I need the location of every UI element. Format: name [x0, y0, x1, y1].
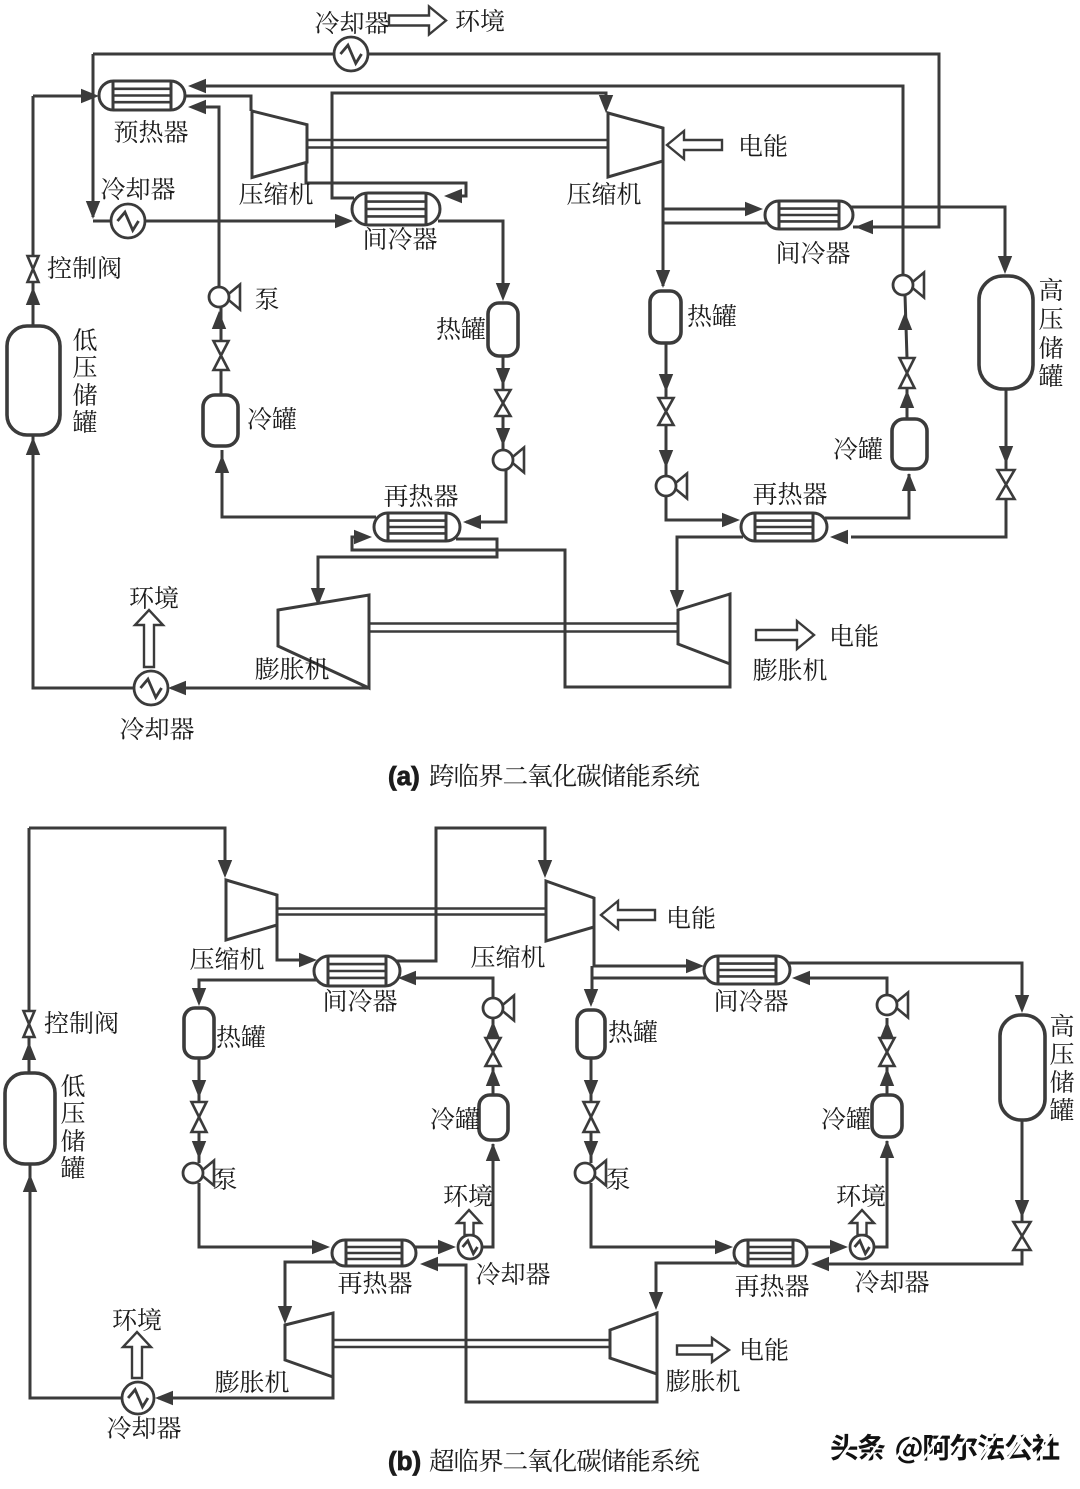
shaft expander3-expander4 [333, 1340, 610, 1347]
arrow into reheater2 right end [830, 530, 848, 544]
arrow into HP tank top [998, 256, 1012, 274]
wire intercooler4 to HP tank (b) [788, 963, 1022, 1008]
label 高压储罐 (b) [1050, 1014, 1074, 1121]
arrow into intercooler1 upper right [444, 189, 462, 203]
arrow into reheater2 left end [722, 513, 740, 527]
block arrow 电能 into compressor2 [667, 131, 722, 159]
pump 泵 3a [183, 1161, 214, 1186]
arrow up into cold tank2 [902, 473, 916, 491]
label 间冷器 3 [325, 989, 397, 1012]
arrow down into pump3a [192, 1141, 206, 1159]
arrow up below cold tank2 valve [900, 390, 914, 408]
label 间冷器 4 [716, 989, 788, 1012]
expander 2 (a) [678, 594, 730, 664]
wire LP tank return riser [33, 435, 134, 688]
wire valve to pump3a [198, 1132, 201, 1163]
heat exchanger 间冷器 1 [352, 193, 440, 225]
arrow into reheater4 right end [811, 1257, 829, 1271]
heat exchanger 间冷器 3 [314, 956, 400, 986]
cold tank 冷罐 2 [892, 419, 927, 469]
arrow into cooler3 [168, 681, 186, 695]
low pressure tank 低压储罐 (a) [7, 326, 60, 435]
arrow down hot tank2 outlet [659, 374, 673, 392]
heat exchanger 再热器 1 [374, 513, 460, 541]
pump cold side 3b [483, 996, 514, 1021]
heat exchanger 再热器 3 [332, 1240, 416, 1266]
arrow down hot tank4 outlet [584, 1080, 598, 1098]
wire preheater loop down to cooler2 [92, 54, 95, 217]
arrow up into cold tank4 bottom [880, 1140, 894, 1158]
heat exchanger 预热器 [99, 81, 185, 110]
high pressure tank 高压储罐 (a) [979, 276, 1033, 389]
cooler C3 bottom (a) [134, 671, 168, 705]
wire reheater3 to cooler3b [414, 1246, 440, 1249]
wire compressor2 outlet down [662, 161, 665, 286]
wire cold tank1 to valve [220, 370, 223, 395]
wire expander1 outlet to cooler3 [171, 687, 369, 690]
valve cold tank3 (b) [486, 1038, 501, 1066]
label 环境 bottom (b) [113, 1308, 161, 1331]
expander 1 (a) [278, 595, 369, 688]
arrow into cooler3b [438, 1240, 456, 1254]
expander 4 (b) [610, 1313, 657, 1374]
wire valve to pump4a [590, 1132, 593, 1163]
valve cold tank4 (b) [880, 1038, 895, 1066]
arrow into intercooler2 left end [745, 202, 763, 216]
cold tank 冷罐 4 [872, 1095, 902, 1137]
wire pump3b riser to intercooler3 [413, 978, 493, 998]
label 冷却器 mid-left (b) [477, 1262, 550, 1285]
control valve 控制阀 (b) [24, 1011, 35, 1037]
wire preheater outlet to compressor1 [186, 96, 251, 111]
wire HP tank2 to valve [1021, 1120, 1024, 1222]
wire reheater4 to cooler4b [806, 1246, 832, 1249]
arrow down hot tank1 outlet [496, 368, 510, 386]
wire reheater4 to expander4 [656, 1263, 737, 1304]
arrow up into control valve (b) [22, 1042, 36, 1060]
arrow up below cold4 valve [880, 1068, 894, 1086]
label 泵 (a) [256, 287, 279, 310]
hot tank 热罐 3 [184, 1008, 214, 1058]
label 间冷器 1 [365, 227, 437, 250]
arrow into hot tank3 [192, 988, 206, 1006]
wire intercooler2 to HP tank [851, 207, 1005, 270]
arrow down into expander2 [670, 590, 684, 608]
block arrow 环境 above cooler3b [457, 1210, 481, 1235]
expander 3 (b) [285, 1313, 333, 1377]
arrow down into pump1b [659, 450, 673, 468]
label 再热器 2 [753, 482, 827, 505]
label 热罐 1 [437, 317, 485, 340]
arrow down into cooler2 line [86, 201, 100, 219]
wire control valve to preheater [33, 95, 94, 98]
arrow up-right into reheater1 lower left [354, 530, 372, 544]
arrow into reheater1 right end [463, 515, 481, 529]
label 泵 3 [214, 1167, 237, 1190]
cooler C2 left [111, 204, 145, 238]
caption (a) 跨临界二氧化碳储能系统 [388, 761, 699, 791]
wire reheater1 to cold tank1 [222, 450, 376, 517]
wire cooler2 line to intercooler1 [93, 220, 349, 223]
arrow down into compressor2 [599, 95, 613, 113]
label 冷罐 1 [248, 407, 296, 430]
label 电能 expanders (a) [832, 624, 877, 647]
arrow up into pump1 [212, 311, 226, 329]
label 膨胀机 3 [216, 1370, 289, 1393]
wire compressor3 outlet to intercooler3 [277, 925, 301, 960]
valve HP tank (b) [1014, 1222, 1031, 1250]
arrow into intercooler3 right end [398, 971, 416, 985]
arrow down into expander4 [649, 1292, 663, 1310]
block arrow 环境 above cooler5 [123, 1332, 151, 1378]
wire reheater2 to expander2 [677, 537, 743, 602]
wire valve to pump1b [665, 425, 668, 476]
wire intercooler1 to hot tank1 [438, 221, 503, 296]
wire LP tank to control valve [32, 96, 35, 256]
wire HP valve2 to reheater4 [826, 1250, 1022, 1264]
control valve 控制阀 (a) [28, 256, 39, 282]
arrow up into LP tank bottom [26, 437, 40, 455]
arrow into intercooler3 left end [299, 953, 317, 967]
wire cold tank4 to valve [886, 1066, 889, 1095]
wire reheater3 to expander3 [285, 1262, 336, 1318]
pump cold side 2 [893, 273, 924, 298]
label 控制阀 (a) [48, 256, 121, 279]
wire valve to pump4b [886, 1018, 889, 1038]
label 冷却器 bottom (a) [121, 717, 194, 740]
label 电能 compressors (b) [669, 906, 714, 929]
wire valve to pump3b [492, 1018, 495, 1038]
label 再热器 1 [384, 484, 458, 507]
cooler C3b mid-left (b) [458, 1235, 482, 1259]
wire compressor4 outlet to hot tank4 [591, 966, 594, 1002]
arrow up into cold tank1 [215, 455, 229, 473]
wire valve to LP tank top [32, 282, 35, 326]
block arrow 环境 top [389, 7, 446, 35]
arrow up below cold3 valve [486, 1068, 500, 1086]
arrow into preheater left end [81, 89, 99, 103]
label 低压储罐 (a) [73, 328, 97, 433]
wire pump3a to reheater3 left end [199, 1183, 313, 1247]
arrow into reheater4 left end [715, 1240, 733, 1254]
wire valve to pump2 [905, 295, 907, 358]
valve hot tank4 (b) [584, 1102, 599, 1132]
wire intercooler1 to compressor2 [332, 93, 606, 198]
block arrow 电能 from expander4 [677, 1338, 729, 1362]
wire hot tank2 to valve [665, 343, 668, 398]
valve hot tank2 (a) [659, 398, 674, 425]
shaft expander1-expander2 [369, 624, 678, 632]
pump cold side 4b [877, 993, 908, 1018]
compressor 3 (b) [226, 880, 277, 940]
wire compressor2 outlet to intercooler2 [663, 208, 747, 211]
label 间冷器 2 [778, 241, 850, 264]
cold tank 冷罐 3 [479, 1095, 508, 1140]
low pressure tank 低压储罐 (b) [5, 1073, 55, 1164]
valve hot tank1 (a) [496, 390, 511, 416]
svg-text:(b): (b) [388, 1446, 421, 1476]
arrow up into cold tank3 bottom [486, 1143, 500, 1161]
wire intercooler2 lower left to hot tank2 drop [663, 222, 767, 225]
label 热罐 2 [688, 304, 736, 327]
label 冷却器 left [102, 177, 175, 200]
wire compressor4 outlet to intercooler4 [594, 927, 688, 966]
arrow up into LP tank2 bottom [23, 1174, 37, 1192]
label 高压储罐 (a) [1039, 278, 1063, 387]
arrow down hot tank3 outlet [192, 1080, 206, 1098]
arrow down into pump1a [496, 428, 510, 446]
wire LP tank2 return riser [30, 1164, 122, 1398]
arrow up into control valve [26, 287, 40, 305]
wire intercooler3 to compressor4 [396, 828, 545, 961]
heat exchanger 再热器 2 [741, 513, 827, 541]
heat exchanger 间冷器 4 [704, 956, 790, 984]
label 压缩机 3 [190, 947, 263, 970]
wire HP valve to reheater2 right end [851, 499, 1006, 537]
wire compressor1 outlet to intercooler1 [306, 163, 466, 196]
caption (b) 超临界二氧化碳储能系统 [388, 1446, 699, 1476]
label 再热器 4 [735, 1274, 809, 1297]
heat exchanger 再热器 4 [734, 1240, 807, 1266]
watermark 头条@阿尔法公社 [831, 1434, 1059, 1464]
block arrow 电能 from expander2 [756, 621, 814, 649]
wire expander3 outlet to cooler5 [158, 1377, 333, 1398]
wire hot tank4 to valve [590, 1055, 593, 1102]
wire hot tank1 to valve [502, 356, 505, 390]
arrow up into pump2 [898, 312, 912, 330]
arrow into reheater3 left end [312, 1240, 330, 1254]
arrow into preheater upper right [188, 79, 206, 93]
high pressure tank 高压储罐 (b) [1000, 1015, 1045, 1120]
wire valve to pump1a [502, 416, 505, 450]
wire expander4 outlet to reheater3 [436, 1265, 657, 1402]
arrow into hot tank1 [496, 283, 510, 301]
arrow into intercooler1 lower left [335, 214, 353, 228]
heat exchanger 间冷器 2 [765, 201, 853, 229]
arrow down into pump4a [584, 1141, 598, 1159]
block arrow 环境 above cooler4b [850, 1210, 874, 1235]
arrow down into compressor3 [218, 860, 232, 878]
block arrow 环境 above cooler3 [135, 610, 163, 667]
shaft compressor3-compressor4 [277, 909, 546, 915]
cold tank 冷罐 1 [203, 395, 238, 446]
arrow down into compressor4 [538, 860, 552, 878]
wire pump1b to reheater2 left end [666, 496, 722, 520]
label 环境 mid-left (b) [444, 1184, 492, 1207]
label 冷罐 4 [822, 1107, 870, 1130]
label 膨胀机 1 [256, 657, 329, 680]
label 环境 bottom (a) [130, 586, 178, 609]
wire top line to compressor3 [29, 828, 225, 872]
pump hot side 1a [493, 448, 524, 473]
pump 泵 (a) [209, 285, 240, 310]
cooler C1 top [334, 37, 368, 71]
wire left riser to control valve (b) [28, 828, 31, 1011]
arrow down HP tank outlet [999, 446, 1013, 464]
compressor 2 (a) [608, 113, 663, 177]
wire cooler4b to cold tank4 [874, 1141, 887, 1247]
arrow into hot tank2 [656, 270, 670, 288]
svg-text:(a): (a) [388, 761, 420, 791]
arrow into hot tank4 [584, 989, 598, 1007]
wire HP tank to valve [1005, 389, 1008, 470]
arrow into intercooler2 right end [855, 220, 873, 234]
label 泵 4 [607, 1167, 630, 1190]
valve HP tank (a) [998, 470, 1015, 499]
wire cooler3b to cold tank3 [481, 1144, 493, 1247]
wire valve to LP tank (b) [28, 1037, 31, 1073]
hot tank 热罐 2 [650, 291, 681, 343]
arrow into preheater lower right [188, 100, 206, 114]
valve cold tank2 (a) [900, 358, 915, 388]
valve cold tank1 (a) [214, 341, 229, 370]
wire cold tank2 to valve [906, 388, 909, 419]
hot tank 热罐 1 [488, 303, 518, 356]
label 冷却器 bottom (b) [108, 1416, 181, 1439]
label 热罐 4 [609, 1020, 657, 1043]
label 压缩机 1 [239, 182, 312, 205]
arrow up into pump4b [880, 1021, 894, 1039]
wire intercooler4 lower left to drop [592, 977, 710, 980]
label 再热器 3 [338, 1271, 412, 1294]
arrow into intercooler4 left end [686, 959, 704, 973]
compressor 4 (b) [546, 881, 594, 941]
shaft compressor1-compressor2 [307, 140, 608, 148]
arrow down into expander3 [278, 1306, 292, 1324]
wire valve to pump1 [220, 307, 223, 341]
cooler C4b mid-right (b) [850, 1235, 874, 1259]
arrow into cooler4b [830, 1240, 848, 1254]
label 膨胀机 4 [667, 1369, 740, 1392]
wire cooler1 line to intercooler2 [93, 54, 939, 227]
compressor 1 (a) [252, 111, 307, 178]
arrow down HP tank2 outlet [1015, 1200, 1029, 1218]
label 环境 top [456, 9, 504, 32]
wire pump4b riser to intercooler4 [807, 978, 887, 995]
arrow into intercooler4 right end [792, 971, 810, 985]
label 冷罐 3 [431, 1107, 479, 1130]
label 热罐 3 [217, 1025, 265, 1048]
pump hot side 1b [656, 474, 687, 499]
label 控制阀 (b) [45, 1011, 118, 1034]
label 冷却器 top [316, 11, 389, 34]
label 电能 expanders (b) [742, 1338, 787, 1361]
label 膨胀机 2 [754, 658, 827, 681]
arrow into HP tank2 top [1015, 995, 1029, 1013]
wire pump1 riser to preheater lower right [197, 107, 219, 287]
valve hot tank3 (b) [192, 1102, 207, 1132]
label 压缩机 2 [567, 182, 640, 205]
wire cold tank3 to valve [492, 1066, 495, 1095]
wire reheater1 lower left elbow [352, 537, 368, 541]
wire intercooler3 to hot tank3 [199, 980, 318, 1002]
block arrow 电能 into compressor4 [601, 901, 655, 929]
label 压缩机 4 [471, 945, 544, 968]
label 冷却器 mid-right (b) [856, 1270, 929, 1293]
label 冷罐 2 [834, 437, 882, 460]
cooler C5 bottom (b) [122, 1382, 154, 1414]
wire pump4a to reheater4 left end [591, 1183, 716, 1247]
label 环境 mid-right (b) [837, 1184, 885, 1207]
wire hot tank3 to valve [198, 1058, 201, 1102]
arrow into cooler5 [155, 1391, 173, 1405]
wire pump1a to reheater1 right end [466, 470, 506, 522]
label 低压储罐 (b) [61, 1074, 85, 1179]
arrow into reheater3 right end [420, 1257, 438, 1271]
arrow down into expander1 [311, 588, 325, 606]
hot tank 热罐 4 [577, 1010, 605, 1058]
pump 泵 4a [575, 1161, 606, 1186]
wire expander2 outlet to reheater1 lower left [352, 540, 730, 687]
wire pump2 riser to preheater upper right [197, 86, 903, 275]
label 电能 compressors (a) [741, 134, 786, 157]
label 预热器 [115, 120, 188, 143]
wire reheater2 to cold tank2 [825, 474, 909, 518]
arrow up into pump3b [486, 1021, 500, 1039]
wire reheater1 to expander1 [318, 539, 497, 600]
